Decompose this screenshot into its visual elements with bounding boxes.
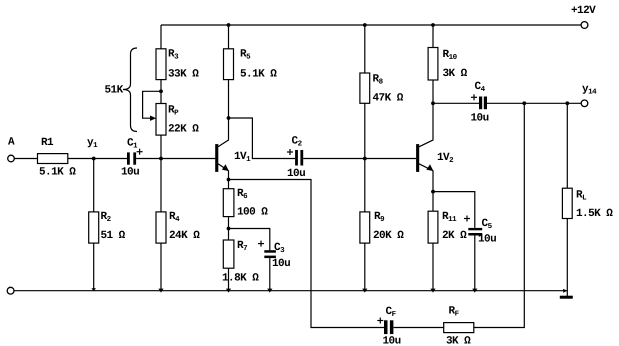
svg-text:10u: 10u [383, 336, 401, 346]
svg-text:2K Ω: 2K Ω [442, 230, 467, 242]
svg-text:51 Ω: 51 Ω [101, 230, 126, 242]
svg-text:51K: 51K [105, 85, 124, 97]
svg-text:5.1K Ω: 5.1K Ω [39, 167, 76, 179]
svg-text:22K Ω: 22K Ω [168, 124, 199, 136]
svg-text:10u: 10u [478, 234, 496, 246]
svg-text:A: A [8, 137, 15, 149]
svg-text:33K Ω: 33K Ω [168, 69, 199, 81]
svg-text:10u: 10u [121, 167, 139, 179]
svg-text:10u: 10u [272, 258, 290, 270]
svg-text:3K Ω: 3K Ω [446, 336, 471, 346]
svg-text:100 Ω: 100 Ω [237, 207, 268, 219]
svg-text:5.1K Ω: 5.1K Ω [240, 69, 277, 81]
svg-text:1.5K Ω: 1.5K Ω [576, 208, 613, 220]
svg-text:20K Ω: 20K Ω [373, 230, 404, 242]
svg-text:3K Ω: 3K Ω [443, 68, 468, 80]
svg-text:10u: 10u [287, 168, 305, 180]
svg-text:1.8K Ω: 1.8K Ω [222, 273, 259, 285]
svg-text:R1: R1 [41, 137, 54, 149]
svg-text:47K Ω: 47K Ω [373, 93, 404, 105]
svg-text:24K Ω: 24K Ω [169, 230, 200, 242]
svg-text:+12V: +12V [571, 5, 596, 17]
svg-text:10u: 10u [471, 113, 489, 125]
